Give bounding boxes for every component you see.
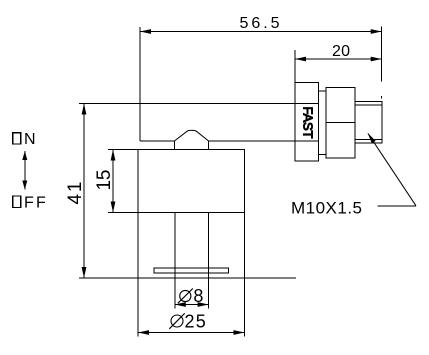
text o25 <box>169 313 184 329</box>
ON checkbox square <box>13 133 21 144</box>
svg-text:41: 41 <box>65 182 86 205</box>
plunger stem <box>175 213 209 279</box>
dimension 41 line <box>82 104 87 279</box>
base plate <box>154 268 229 273</box>
neck between FAST block and nut <box>319 91 327 155</box>
threaded stud M10 <box>355 102 382 143</box>
mounting baseline <box>79 277 296 279</box>
dimension 56.5 extension lines <box>140 27 382 104</box>
dimension 20 line <box>295 57 382 62</box>
svg-text:25: 25 <box>185 312 208 332</box>
dimension o25 line <box>138 330 245 335</box>
plunger dome bump under arm <box>174 130 208 149</box>
leader line M10X1.5 <box>368 133 416 206</box>
OFF checkbox square <box>13 196 21 208</box>
svg-text:N: N <box>24 131 36 148</box>
dimension 41 extension line <box>79 103 140 105</box>
svg-text:8: 8 <box>193 286 203 306</box>
svg-text:M10X1.5: M10X1.5 <box>291 199 362 218</box>
dimension 56.5 line <box>140 29 382 34</box>
svg-text:56.5: 56.5 <box>240 15 280 32</box>
dimension 20 extension line <box>294 50 296 83</box>
ON-OFF double arrow <box>22 151 27 190</box>
dimension o8 line <box>175 302 209 307</box>
dimension 15 extension lines <box>108 150 138 213</box>
svg-text:15: 15 <box>94 170 115 191</box>
main body block <box>138 150 245 213</box>
arm (horizontal body tube) <box>140 104 319 142</box>
dimension 15 line <box>111 150 116 213</box>
text o8 <box>178 289 193 304</box>
dimension o25 extension lines <box>138 213 245 337</box>
FAST block <box>295 83 319 161</box>
hex nut block <box>326 88 355 159</box>
svg-text:FAST: FAST <box>301 107 316 139</box>
dimension o8 extension lines <box>175 278 209 309</box>
svg-text:20: 20 <box>332 43 350 60</box>
